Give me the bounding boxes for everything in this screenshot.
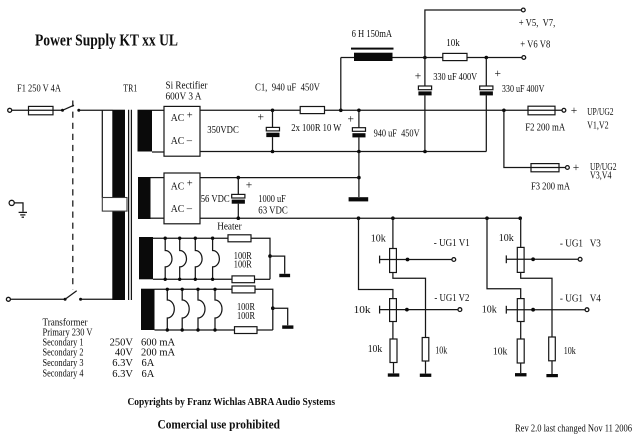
svg-text:- UG1 V1: - UG1 V1 <box>434 238 470 249</box>
plus sign 1000uF <box>246 179 253 191</box>
heater net1 top wire <box>153 237 228 239</box>
label UG1 V2 <box>434 293 469 304</box>
svg-text:10k: 10k <box>446 38 460 49</box>
node choke branch <box>339 109 343 113</box>
wire U2 plus rail <box>200 177 359 179</box>
svg-text:AC: AC <box>171 204 185 215</box>
svg-text:10k: 10k <box>435 345 448 356</box>
terminal PE <box>9 200 14 205</box>
capacitor C1 <box>266 110 279 151</box>
svg-text:100R: 100R <box>234 260 252 271</box>
terminal mains L <box>8 108 12 112</box>
label 10k P3 <box>499 233 515 244</box>
svg-text:+: + <box>495 68 502 80</box>
wire V5 riser <box>425 10 522 58</box>
svg-text:10k: 10k <box>564 346 577 357</box>
rectifier U2 <box>164 173 200 224</box>
svg-text:10k: 10k <box>371 234 387 245</box>
svg-text:Rev 2.0 last changed Nov 11 20: Rev 2.0 last changed Nov 11 2006 <box>515 423 632 434</box>
wiper P3 <box>506 255 578 263</box>
terminal V6 V8 <box>522 56 526 60</box>
svg-text:F2 200 mA: F2 200 mA <box>525 122 565 133</box>
filament V5 <box>166 288 175 332</box>
label secondary currents <box>141 338 176 381</box>
label 940uF <box>374 128 420 139</box>
label TR1 <box>123 83 137 94</box>
transformer TR1 secondary 4 winding <box>141 289 155 330</box>
svg-text:6A: 6A <box>142 369 155 380</box>
label 350VDC <box>207 125 239 136</box>
title <box>35 31 178 50</box>
svg-text:+ V5, V7,: + V5, V7, <box>519 18 556 29</box>
svg-text:+: + <box>187 110 193 121</box>
rectifier U1 <box>164 106 200 156</box>
plus sign C1 <box>258 112 265 124</box>
wire 10k to terminal <box>467 57 522 59</box>
heater net1 bottom wire right <box>255 278 271 280</box>
terminal UP UG2 V3V4 <box>566 166 570 170</box>
label 330uF-1 <box>433 72 477 83</box>
svg-text:TR1: TR1 <box>123 83 137 94</box>
resistor heater2 bottom 100R <box>235 327 258 334</box>
wiper P2 <box>380 306 458 314</box>
wire primary tap drop <box>101 110 103 197</box>
terminal UP UG2 V1V2 <box>562 108 566 112</box>
transformer TR1 secondary 3 winding <box>139 237 153 279</box>
node P1 wiper <box>406 258 410 262</box>
wire heater2 ground <box>273 308 288 325</box>
heater net2 top wire <box>155 288 233 290</box>
label 10k P1 <box>371 234 387 245</box>
ground main <box>349 197 369 201</box>
plus sign F3 <box>573 162 580 174</box>
svg-text:UP/UG2: UP/UG2 <box>587 107 614 118</box>
label C1 value <box>255 83 320 94</box>
svg-text:+: + <box>348 114 355 126</box>
capacitor 940uF <box>352 110 365 151</box>
potentiometer P2 <box>390 299 397 322</box>
svg-text:330 uF 400V: 330 uF 400V <box>502 84 545 95</box>
svg-text:Copyrights by Franz Wichlas AB: Copyrights by Franz Wichlas ABRA Audio S… <box>128 397 336 408</box>
heater net1 bottom wire <box>153 278 232 280</box>
label 2x100R <box>291 123 341 134</box>
svg-text:Secondary 4: Secondary 4 <box>43 369 85 380</box>
svg-text:40V: 40V <box>115 348 134 359</box>
plus sign 330uF-1 <box>415 71 422 83</box>
ground R4 <box>546 374 558 377</box>
svg-text:Secondary 3: Secondary 3 <box>43 358 84 369</box>
label secondary voltages <box>110 338 134 381</box>
svg-text:+: + <box>187 179 193 190</box>
node C1 bottom <box>271 150 275 154</box>
bias rail wire <box>200 217 521 219</box>
wire pot P2 feed <box>359 218 393 298</box>
wire U1 plus to resistor <box>200 109 300 111</box>
wire F3 branch <box>504 110 566 167</box>
wire resistor to F2 rail <box>325 109 562 111</box>
ground heater1 <box>279 274 290 277</box>
svg-text:10k: 10k <box>493 347 508 358</box>
svg-text:6 H 150mA: 6 H 150mA <box>352 29 393 40</box>
label 10k P2 <box>354 305 372 316</box>
wire mains N to switch <box>11 298 66 300</box>
wire switch to primary bottom <box>81 298 113 300</box>
svg-text:600V 3 A: 600V 3 A <box>166 92 202 103</box>
label Si Rectifier <box>166 81 208 103</box>
svg-text:–: – <box>186 204 193 215</box>
svg-text:+ V6 V8: + V6 V8 <box>520 40 550 51</box>
node P3 wiper <box>531 257 535 261</box>
wire R4 to ground <box>551 361 553 374</box>
wire sec1 to U1 top <box>152 109 164 111</box>
label F2 value <box>525 122 565 133</box>
svg-text:6.3V: 6.3V <box>112 358 133 369</box>
svg-text:Heater: Heater <box>217 222 242 233</box>
terminal UG1 V1 <box>452 258 456 262</box>
node bias R2 <box>485 216 489 220</box>
svg-text:Comercial use prohibited: Comercial use prohibited <box>158 416 281 431</box>
label V6 V8 <box>520 40 550 51</box>
svg-text:56 VDC: 56 VDC <box>201 194 230 205</box>
capacitor 330uF-2 <box>480 58 493 152</box>
resistor R2 10k <box>422 338 429 362</box>
wire P1 bottom to R2 <box>393 273 426 338</box>
wire ground drop <box>358 152 360 198</box>
ground R3 <box>515 373 527 376</box>
svg-text:+: + <box>258 112 265 124</box>
filament V1 <box>164 237 172 281</box>
transformer TR1 primary tap box <box>102 198 127 212</box>
svg-text:AC: AC <box>171 136 185 147</box>
label 330uF-2 <box>502 84 545 95</box>
terminal mains N <box>6 297 10 301</box>
label F1 value <box>17 84 61 95</box>
plus sign 940uF <box>348 114 355 126</box>
node C1 top <box>271 109 275 113</box>
filament V7 <box>196 288 205 332</box>
wiper P4 <box>506 306 585 314</box>
switch S1a <box>61 105 80 112</box>
node 56VDC plus tie <box>357 176 361 180</box>
filament V3 <box>194 237 202 281</box>
svg-text:V3,V4: V3,V4 <box>590 171 612 182</box>
svg-text:+: + <box>573 162 580 174</box>
inductor L1 choke <box>351 48 394 61</box>
resistor heater1 top 100R <box>228 235 251 242</box>
resistor 10k top <box>443 53 467 60</box>
wire sec2 to U2 top <box>151 177 165 179</box>
heater net2 bottom wire <box>155 329 235 331</box>
label 56VDC <box>201 194 230 205</box>
transformer TR1 secondary 2 winding <box>138 177 151 219</box>
label 10k top <box>446 38 460 49</box>
svg-text:1000 uF: 1000 uF <box>258 194 286 205</box>
label 10k R1 <box>368 344 383 355</box>
plus sign F2 <box>571 105 578 117</box>
filament V8 <box>213 288 222 332</box>
node 330uF-2 top <box>485 56 489 60</box>
svg-text:- UG1 V4: - UG1 V4 <box>560 293 602 304</box>
ground rail wire <box>200 151 486 153</box>
svg-text:63 VDC: 63 VDC <box>258 206 288 217</box>
svg-text:350VDC: 350VDC <box>207 125 239 136</box>
wire pot P4 feed <box>487 218 521 298</box>
svg-text:10k: 10k <box>354 305 372 316</box>
svg-text:+: + <box>415 71 422 83</box>
wire pot P1 feed <box>392 218 394 248</box>
node P2 wiper <box>405 308 409 312</box>
resistor heater2 top 100R <box>232 286 255 293</box>
svg-text:200 mA: 200 mA <box>141 348 176 359</box>
ground PE <box>19 212 27 217</box>
wire heater1 ground <box>270 256 285 274</box>
svg-text:6.3V: 6.3V <box>112 369 133 380</box>
label 100R heater1 <box>234 251 252 271</box>
svg-text:+: + <box>246 179 253 191</box>
fuse F3 <box>531 164 559 172</box>
wire P2 bottom to R1 <box>392 322 394 340</box>
terminal V5 V7 <box>521 8 525 12</box>
node bias L2 <box>357 216 361 220</box>
label 10k R3 <box>493 347 508 358</box>
label UG1 V3 <box>560 239 601 250</box>
svg-text:AC: AC <box>171 113 185 124</box>
wire sec2 to U2 bottom <box>151 217 165 219</box>
svg-text:V1,V2: V1,V2 <box>587 120 609 131</box>
wire PE <box>14 203 23 212</box>
wire pot P3 feed <box>520 218 522 247</box>
resistor R4 10k <box>549 337 556 361</box>
label F3 value <box>531 182 570 193</box>
transformer TR1 primary winding <box>112 110 125 300</box>
svg-text:- UG1 V3: - UG1 V3 <box>560 239 601 250</box>
label revision <box>515 423 632 434</box>
wire choke branch up <box>341 58 354 111</box>
terminal UG1 V4 <box>585 308 589 312</box>
label commercial <box>158 416 281 431</box>
node P4 wiper <box>531 308 535 312</box>
svg-text:–: – <box>186 136 193 147</box>
wire P4 bottom to R3 <box>520 322 522 340</box>
svg-text:2x 100R 10 W: 2x 100R 10 W <box>291 123 341 134</box>
node 330uF-1 bottom <box>423 150 427 154</box>
transformer TR1 core <box>129 110 132 300</box>
fuse F1 <box>29 106 63 114</box>
resistor R3 10k <box>517 339 524 363</box>
terminal UG1 V2 <box>458 308 462 312</box>
node 1000uF top <box>237 176 241 180</box>
wire R3 to ground <box>520 363 522 373</box>
label 1000uF <box>258 194 288 217</box>
fuse F2 <box>528 106 555 115</box>
filament V2 <box>178 237 186 281</box>
label 10k P4 <box>482 305 498 316</box>
svg-text:940 uF 450V: 940 uF 450V <box>374 128 420 139</box>
node 1000uF bottom <box>237 216 241 220</box>
ground R1 <box>388 373 400 376</box>
svg-text:10k: 10k <box>368 344 383 355</box>
terminal UG1 V3 <box>578 257 582 261</box>
svg-text:Si Rectifier: Si Rectifier <box>166 81 208 92</box>
node bias L1 <box>391 216 395 220</box>
wire R1 to ground <box>393 363 395 374</box>
node V5 branch <box>423 56 427 60</box>
wire sec1 to U1 bottom <box>152 151 164 153</box>
wire P3 bottom to R4 <box>521 272 552 337</box>
node bias R1 <box>518 216 522 220</box>
node 940uF bottom <box>357 150 361 154</box>
potentiometer P1 <box>390 249 397 273</box>
svg-text:F1 250 V 4A: F1 250 V 4A <box>17 84 61 95</box>
wire mains L to fuse <box>12 109 29 111</box>
svg-text:100R: 100R <box>237 311 255 322</box>
plus sign 330uF-2 <box>495 68 502 80</box>
node F3 branch <box>502 109 506 113</box>
resistor R1 10k <box>390 339 397 363</box>
potentiometer P3 <box>517 247 524 272</box>
resistor 2x100R <box>300 107 324 114</box>
heater net2 bottom wire right <box>257 329 273 331</box>
capacitor 1000uF <box>232 178 245 219</box>
label UG1 V1 <box>434 238 470 249</box>
label UP UG2 V1V2 <box>587 107 614 132</box>
label choke value <box>352 29 393 40</box>
resistor heater1 bottom 100R <box>232 276 255 283</box>
svg-text:330 uF 400V: 330 uF 400V <box>433 72 477 83</box>
svg-text:- UG1 V2: - UG1 V2 <box>434 293 469 304</box>
transformer TR1 secondary 1 winding <box>138 110 153 152</box>
label Heater <box>217 222 242 233</box>
node heater1 ground tap <box>268 254 272 258</box>
potentiometer P4 <box>517 299 524 322</box>
svg-text:Power Supply KT xx UL: Power Supply KT xx UL <box>35 31 178 50</box>
switch S1b <box>64 291 83 301</box>
node heater2 ground tap <box>271 306 275 310</box>
label copyright <box>128 397 336 408</box>
wire choke to 10k <box>393 57 443 59</box>
wire switch to primary <box>79 109 113 111</box>
ground heater2 <box>282 325 293 328</box>
filament V6 <box>181 288 190 332</box>
wiper P1 <box>380 256 452 264</box>
svg-text:C1, 940 uF 450V: C1, 940 uF 450V <box>255 83 320 94</box>
label UP UG2 V3V4 <box>590 162 617 182</box>
svg-text:+: + <box>571 105 578 117</box>
label 100R heater2 <box>237 302 255 322</box>
svg-text:6A: 6A <box>142 358 155 369</box>
label V5 V7 <box>519 18 556 29</box>
switch linkage dashed <box>72 101 74 290</box>
svg-text:10k: 10k <box>499 233 515 244</box>
node 940uF top <box>357 109 361 113</box>
label transformer data <box>43 318 93 380</box>
capacitor 330uF-1 <box>418 58 431 152</box>
label 10k R2 <box>435 345 448 356</box>
label 10k R4 <box>564 346 577 357</box>
filament V4 <box>211 237 220 281</box>
svg-text:AC: AC <box>171 181 185 192</box>
svg-text:10k: 10k <box>482 305 498 316</box>
wire R2 to ground <box>425 361 427 374</box>
heater net1 top wire right <box>251 238 270 279</box>
label UG1 V4 <box>560 293 602 304</box>
heater net2 top wire right <box>255 289 273 330</box>
ground R2 <box>420 374 432 377</box>
svg-text:F3 200 mA: F3 200 mA <box>531 182 570 193</box>
